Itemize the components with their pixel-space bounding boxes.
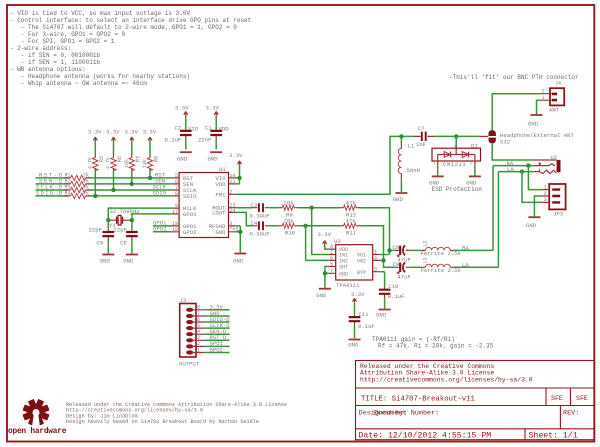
ground below D1 right [466,176,481,186]
svg-text:GND: GND [208,155,219,162]
svg-text:7: 7 [330,268,333,274]
J3 pin stubs [192,310,205,353]
svg-text:GPO2: GPO2 [153,226,166,233]
supply 3.3V arrow above R7 [125,129,139,141]
svg-text:U3: U3 [334,238,341,245]
svg-text:http://creativecommons.org/lic: http://creativecommons.org/licenses/by-s… [360,376,533,383]
svg-text:- if SEN = 0, 0010001b: - if SEN = 0, 0010001b [10,52,100,59]
D1 left pin to ground [437,155,439,166]
supply 3.3V above C2 [175,105,189,118]
resistor R4 [65,191,90,199]
svg-text:18: 18 [172,227,178,233]
svg-text:GND: GND [100,258,111,265]
svg-text:SHT: SHT [339,265,348,271]
net label GPO2 stub [153,231,172,233]
wire RST-D row [36,177,172,179]
svg-text:D1: D1 [471,142,478,149]
junction dot LA/JP3 [520,169,524,173]
capacitor C8 polarized [393,244,411,263]
capacitor C2 [165,117,199,150]
svg-text:C7: C7 [418,125,425,132]
J3 pin arrows [186,308,193,355]
svg-text:3.3V: 3.3V [229,152,243,159]
wire SEN-D row [36,183,172,185]
U1 pin names left [183,175,197,236]
svg-text:SFE: SFE [576,395,588,402]
svg-text:GND: GND [316,292,327,299]
wire R12 to VO1 node [360,208,389,251]
resistor R5 pullup [88,141,106,196]
svg-text:6: 6 [330,255,333,261]
ground below C1 [208,152,223,162]
svg-text:4: 4 [374,255,377,261]
resistor R1 [65,173,90,181]
supply 3.3V above C11 [351,291,365,302]
svg-text:GND: GND [528,121,539,128]
wire C9 to ferrite FB2 [410,266,422,268]
svg-text:4: 4 [197,329,200,335]
svg-text:GND: GND [526,222,537,229]
svg-text:20k: 20k [284,199,295,206]
svg-text:22pF: 22pF [114,227,127,234]
capacitor C7 [414,125,434,148]
wire JP3 pin1 [528,166,542,190]
svg-text:20k: 20k [284,218,295,225]
svg-text:GND: GND [376,312,387,319]
svg-text:3.3V: 3.3V [351,291,365,298]
wire LA row [498,172,533,268]
capacitor C6 [114,220,138,253]
ground below C6 [123,255,138,265]
svg-text:U1: U1 [219,166,226,173]
svg-text:R10: R10 [285,230,296,237]
svg-text:4.7k: 4.7k [88,157,94,169]
note: design notes text block top-left [10,10,251,87]
svg-text:GND: GND [348,341,359,348]
J3 net labels [210,304,231,354]
svg-text:0.1uF: 0.1uF [165,137,182,144]
junction dot R6/SCLK [111,188,115,192]
svg-text:ANT: ANT [549,106,560,113]
U1 pin numbers left [172,173,178,233]
capacitor C11 [349,302,375,338]
svg-text:2k: 2k [83,191,89,197]
wire SJ2 bottom to jack sleeve [492,144,534,160]
wire RA to right [453,249,493,251]
svg-text:Ferrite 2.5k: Ferrite 2.5k [421,250,462,257]
svg-text:- For 3-wire, GPO1 = GPO2 = 0: - For 3-wire, GPO1 = GPO2 = 0 [10,31,126,38]
svg-text:56nH: 56nH [407,167,420,174]
junction dot R7/SEN [130,182,134,186]
svg-text:CM1213: CM1213 [443,161,466,168]
svg-text:3.3V: 3.3V [125,129,139,136]
svg-text:17: 17 [172,209,178,215]
J3 pin numbers [197,305,200,354]
capacitor C3 [250,202,270,220]
headphone jack U2 [534,154,561,173]
ground below C10 [376,310,391,319]
wire J4 pin2 to SJ2 [492,94,540,130]
svg-text:3.3V: 3.3V [143,129,157,136]
svg-text:GND: GND [339,271,348,277]
op-amp U1 Si4707 box [179,173,228,238]
svg-text:47k: 47k [346,199,357,206]
open hardware logo gear [22,399,49,426]
svg-text:GND: GND [215,229,226,236]
svg-text:C4: C4 [251,220,258,227]
svg-text:- The Si4707 will default to 2: - The Si4707 will default to 2-wire mode… [10,24,237,31]
resistor R12 [340,199,361,218]
svg-text:47k: 47k [346,218,357,225]
junction dot R10 out [303,224,307,228]
wire D1 tap down [455,136,457,148]
U1 pin numbers right [230,173,239,233]
svg-text:- if SEN = 1, 1100011b: - if SEN = 1, 1100011b [10,59,100,66]
wire R11 to VO2 node [360,226,383,261]
junction dot R8/RST [148,176,152,180]
svg-text:GND: GND [177,155,188,162]
ground below D1 left [429,176,444,186]
svg-text:2: 2 [470,163,472,167]
svg-text:2: 2 [542,88,545,94]
U3 pin numbers [330,244,377,274]
svg-text:SJ2: SJ2 [500,138,510,145]
svg-text:TPA6111: TPA6111 [336,282,360,289]
svg-text:- WB antenna options:: - WB antenna options: [10,66,86,73]
net label GPO1 stub [153,225,172,227]
svg-text:4.7k: 4.7k [106,157,112,169]
svg-text:ESD Protection: ESD Protection [432,186,483,193]
svg-text:R6: R6 [117,156,123,162]
supply 3.3V arrow above R8 [143,129,157,141]
svg-text:3.3V: 3.3V [88,129,102,136]
wire C8 to ferrite FB1 [410,249,422,251]
resistor R6 pullup [106,141,124,191]
svg-text:C5: C5 [97,240,104,247]
wire R9 node down to IN1 [312,208,329,255]
inductor L1 [398,136,420,192]
svg-text:32.768kHz: 32.768kHz [110,208,140,215]
resistor R10 [279,218,298,237]
svg-text:GPO2: GPO2 [210,346,223,353]
wire VO2 to C9 [380,260,395,267]
svg-text:0.1uF: 0.1uF [358,323,375,330]
svg-text:6: 6 [197,317,200,323]
junction dot crystal left [106,218,110,222]
wire JP3 pin2 to ground [534,196,542,216]
svg-text:C10: C10 [388,283,399,290]
wire VO1 to C8 [380,250,395,254]
wire JP3 pin3 [522,172,542,203]
svg-text:C11: C11 [358,311,369,318]
wire SDIO-D row [36,195,172,197]
svg-text:BYP: BYP [357,270,366,276]
svg-text:14: 14 [230,207,236,213]
svg-text:1: 1 [434,163,436,167]
svg-text:5: 5 [197,323,200,329]
connector J4 [540,81,564,114]
ferrite bead L2 [421,240,462,257]
svg-text:3: 3 [544,197,547,203]
ground below C5 [100,255,115,265]
svg-text:R8: R8 [154,156,160,162]
svg-text:C9: C9 [393,261,400,268]
svg-text:JP3: JP3 [553,210,563,217]
svg-text:0.1uF: 0.1uF [388,293,405,300]
junction dot RA/JP3 [526,163,530,167]
svg-text:10k: 10k [124,159,130,168]
credits text bottom left [66,402,287,425]
svg-text:OUTPUT: OUTPUT [179,361,200,368]
svg-text:- For SPI, GPO1 = GPO2 = 1: - For SPI, GPO1 = GPO2 = 1 [10,38,115,45]
supply 3.3V above U1 [229,152,243,164]
U1 pin stubs right [229,178,237,232]
svg-text:22nF: 22nF [198,137,211,144]
junction dot VO2/R11 [381,258,385,262]
title block frame [356,361,595,440]
ground below JP3 [526,217,540,229]
svg-text:R5: R5 [99,156,105,162]
svg-text:47uF: 47uF [397,274,410,281]
svg-text:REV:: REV: [563,410,579,418]
svg-text:IN2: IN2 [339,259,348,265]
wire J4 pin1 to ground [537,100,540,114]
svg-text:2: 2 [197,341,200,347]
wire C4 to R10 [269,225,278,227]
svg-text:Rf = 47k, Ri = 20k, gain = -2.: Rf = 47k, Ri = 20k, gain = -2.35 [378,343,494,350]
svg-text:- Headphone antenna (works for: - Headphone antenna (works for nearby st… [10,73,190,80]
svg-text:R7: R7 [136,156,142,162]
wire SCLK-D row [36,189,172,191]
svg-text:SDIO-D: SDIO-D [36,190,63,197]
J3 pin wires [205,310,230,353]
svg-text:3: 3 [454,146,456,150]
svg-text:3: 3 [197,335,200,341]
resistor R8 pullup [142,141,160,178]
svg-text:Design heavily based on Si4703: Design heavily based on Si4703 Breakout … [66,419,259,425]
supply 3.3V arrow above R6 [106,129,120,141]
svg-text:GPO3: GPO3 [183,211,196,218]
wire 3.3V to VIO/VDD [236,164,240,184]
svg-text:3: 3 [374,267,377,273]
resistor R11 [340,218,361,237]
capacitor C1 [198,117,229,150]
svg-text:R4: R4 [65,191,71,197]
wire ROUT to C3 [236,207,253,209]
svg-text:Sheet: 1/1: Sheet: 1/1 [529,430,578,440]
svg-text:3.3V: 3.3V [106,129,120,136]
svg-text:VDD: VDD [215,181,226,188]
wire R10 to R11 [298,225,340,227]
svg-text:R11: R11 [346,230,357,237]
capacitor C10 [379,283,405,309]
svg-text:0.39uF: 0.39uF [250,213,270,220]
junction dot crystal right [130,218,134,222]
svg-text:R2: R2 [65,179,71,185]
solder jumper SJ2 [479,130,574,145]
junction dot VIO [237,176,241,180]
svg-text:6: 6 [175,179,178,185]
resistor R2 [65,179,90,187]
svg-text:Headphone/External ANT: Headphone/External ANT [500,132,574,139]
svg-text:8: 8 [175,191,178,197]
junction dot VO1/R12 [387,248,391,252]
U3 pin names [339,247,366,277]
resistor R3 [65,185,90,193]
svg-text:VO2: VO2 [357,259,366,265]
svg-text:GPO2: GPO2 [183,229,196,236]
svg-text:Ferrite 2.5k: Ferrite 2.5k [421,267,462,274]
svg-text:C6: C6 [120,240,127,247]
capacitor C4 [250,220,270,238]
net labels RST SEN SCLK SDIO at U1 [153,172,167,197]
wire R10 node down to IN2 [306,226,329,261]
svg-text:1: 1 [197,347,200,353]
svg-text:GND: GND [233,257,244,264]
svg-text:J4: J4 [555,81,561,87]
svg-text:- Control interface: to select: - Control interface: to select an interf… [10,17,251,24]
svg-text:L2: L2 [423,240,429,246]
svg-text:GND: GND [393,196,404,203]
svg-text:- Whip antenna ~ GW antenna =~: - Whip antenna ~ GW antenna =~ 46cm [10,80,147,87]
junction dot D1 tap [454,134,458,138]
ground below C11 [348,340,360,349]
wire BYP to C10 [380,272,384,288]
junction dot GND pin [238,230,242,234]
svg-text:0.39uF: 0.39uF [250,231,270,238]
wire 3.3V to U3 VDD [325,244,329,249]
svg-text:L3: L3 [423,257,429,263]
ferrite bead L3 [421,257,462,274]
U3 pin stubs [329,249,381,273]
svg-text:11: 11 [230,179,236,185]
wire RA row [493,166,534,251]
supply 3.3V arrow above R5 [88,129,102,141]
resistor R9 [279,199,298,218]
svg-text:3.3V: 3.3V [318,231,332,238]
svg-text:TITLE: Si4707-Breakout-v11: TITLE: Si4707-Breakout-v11 [361,396,475,404]
svg-text:2: 2 [544,191,547,197]
wire R9 to R12 [298,207,340,209]
wire LOUT to C4 [236,212,253,225]
svg-text:L1: L1 [408,143,415,150]
supply 3.3V above U3 [318,231,332,244]
wire FMI net [236,136,414,194]
title block license text [360,363,533,383]
wire C7 to SJ2 [434,135,479,137]
wire SHT to GND [325,267,329,288]
ground below C2 [177,152,192,162]
junction dot SHT/GND [323,271,327,275]
svg-text:10k: 10k [142,159,148,168]
op-amp U3 TPA6111 box [336,245,373,280]
junction dot R9 out [310,206,314,210]
svg-text:SDIO: SDIO [153,190,167,197]
svg-text:8: 8 [197,305,200,311]
wire RCLK net [108,208,171,220]
connector JP3 [542,184,566,217]
svg-text:3.3V: 3.3V [206,105,220,112]
svg-text:SFE: SFE [551,395,563,402]
svg-text:2: 2 [230,189,233,195]
connector J3 [179,297,200,368]
svg-text:1nF: 1nF [416,141,426,148]
svg-text:5: 5 [330,262,333,268]
svg-text:- VIO is tied to VCC, so max i: - VIO is tied to VCC, so max input votla… [10,10,190,17]
svg-text:Designed by:: Designed by: [359,410,408,418]
supply 3.3V above C1 [206,105,220,118]
svg-text:- 2-wire address:: - 2-wire address: [10,45,71,52]
capacitor C9 polarized [393,261,411,280]
U1 pin names right [209,175,226,236]
svg-text:1: 1 [542,95,545,101]
U1 pin stubs left [172,178,180,232]
wire C3 to R9 [269,207,278,209]
wire GPO3 net [132,214,172,220]
ground below U1 [233,254,246,265]
svg-text:2k: 2k [83,179,89,185]
svg-text:1: 1 [544,184,547,190]
junction dot L1 tap [399,134,403,138]
wire RFGND/GND to ground [236,226,240,253]
wire LA to right [453,266,498,268]
svg-text:Date: 12/10/2012 4:55:15 PM: Date: 12/10/2012 4:55:15 PM [359,430,492,440]
svg-text:LOUT: LOUT [212,209,226,216]
ground below L1 [393,193,408,203]
svg-text:SDIO: SDIO [183,193,197,200]
svg-text:C8: C8 [393,244,400,251]
resistor R7 pullup [124,141,142,184]
svg-text:GND: GND [123,258,134,265]
svg-text:22pF: 22pF [89,227,102,234]
capacitor C5 [89,220,115,253]
ground below U3 [316,289,331,299]
svg-text:open hardware: open hardware [8,428,67,436]
diode array D1 CM1213 [432,142,481,167]
svg-text:C3: C3 [251,202,258,209]
D1 right pin to ground [474,155,476,166]
ground below J4 [528,115,543,128]
crystal Y1 [108,215,132,229]
svg-text:3.3V: 3.3V [175,105,189,112]
junction dot R5/SDIO [93,194,97,198]
svg-text:FMI: FMI [215,191,225,198]
